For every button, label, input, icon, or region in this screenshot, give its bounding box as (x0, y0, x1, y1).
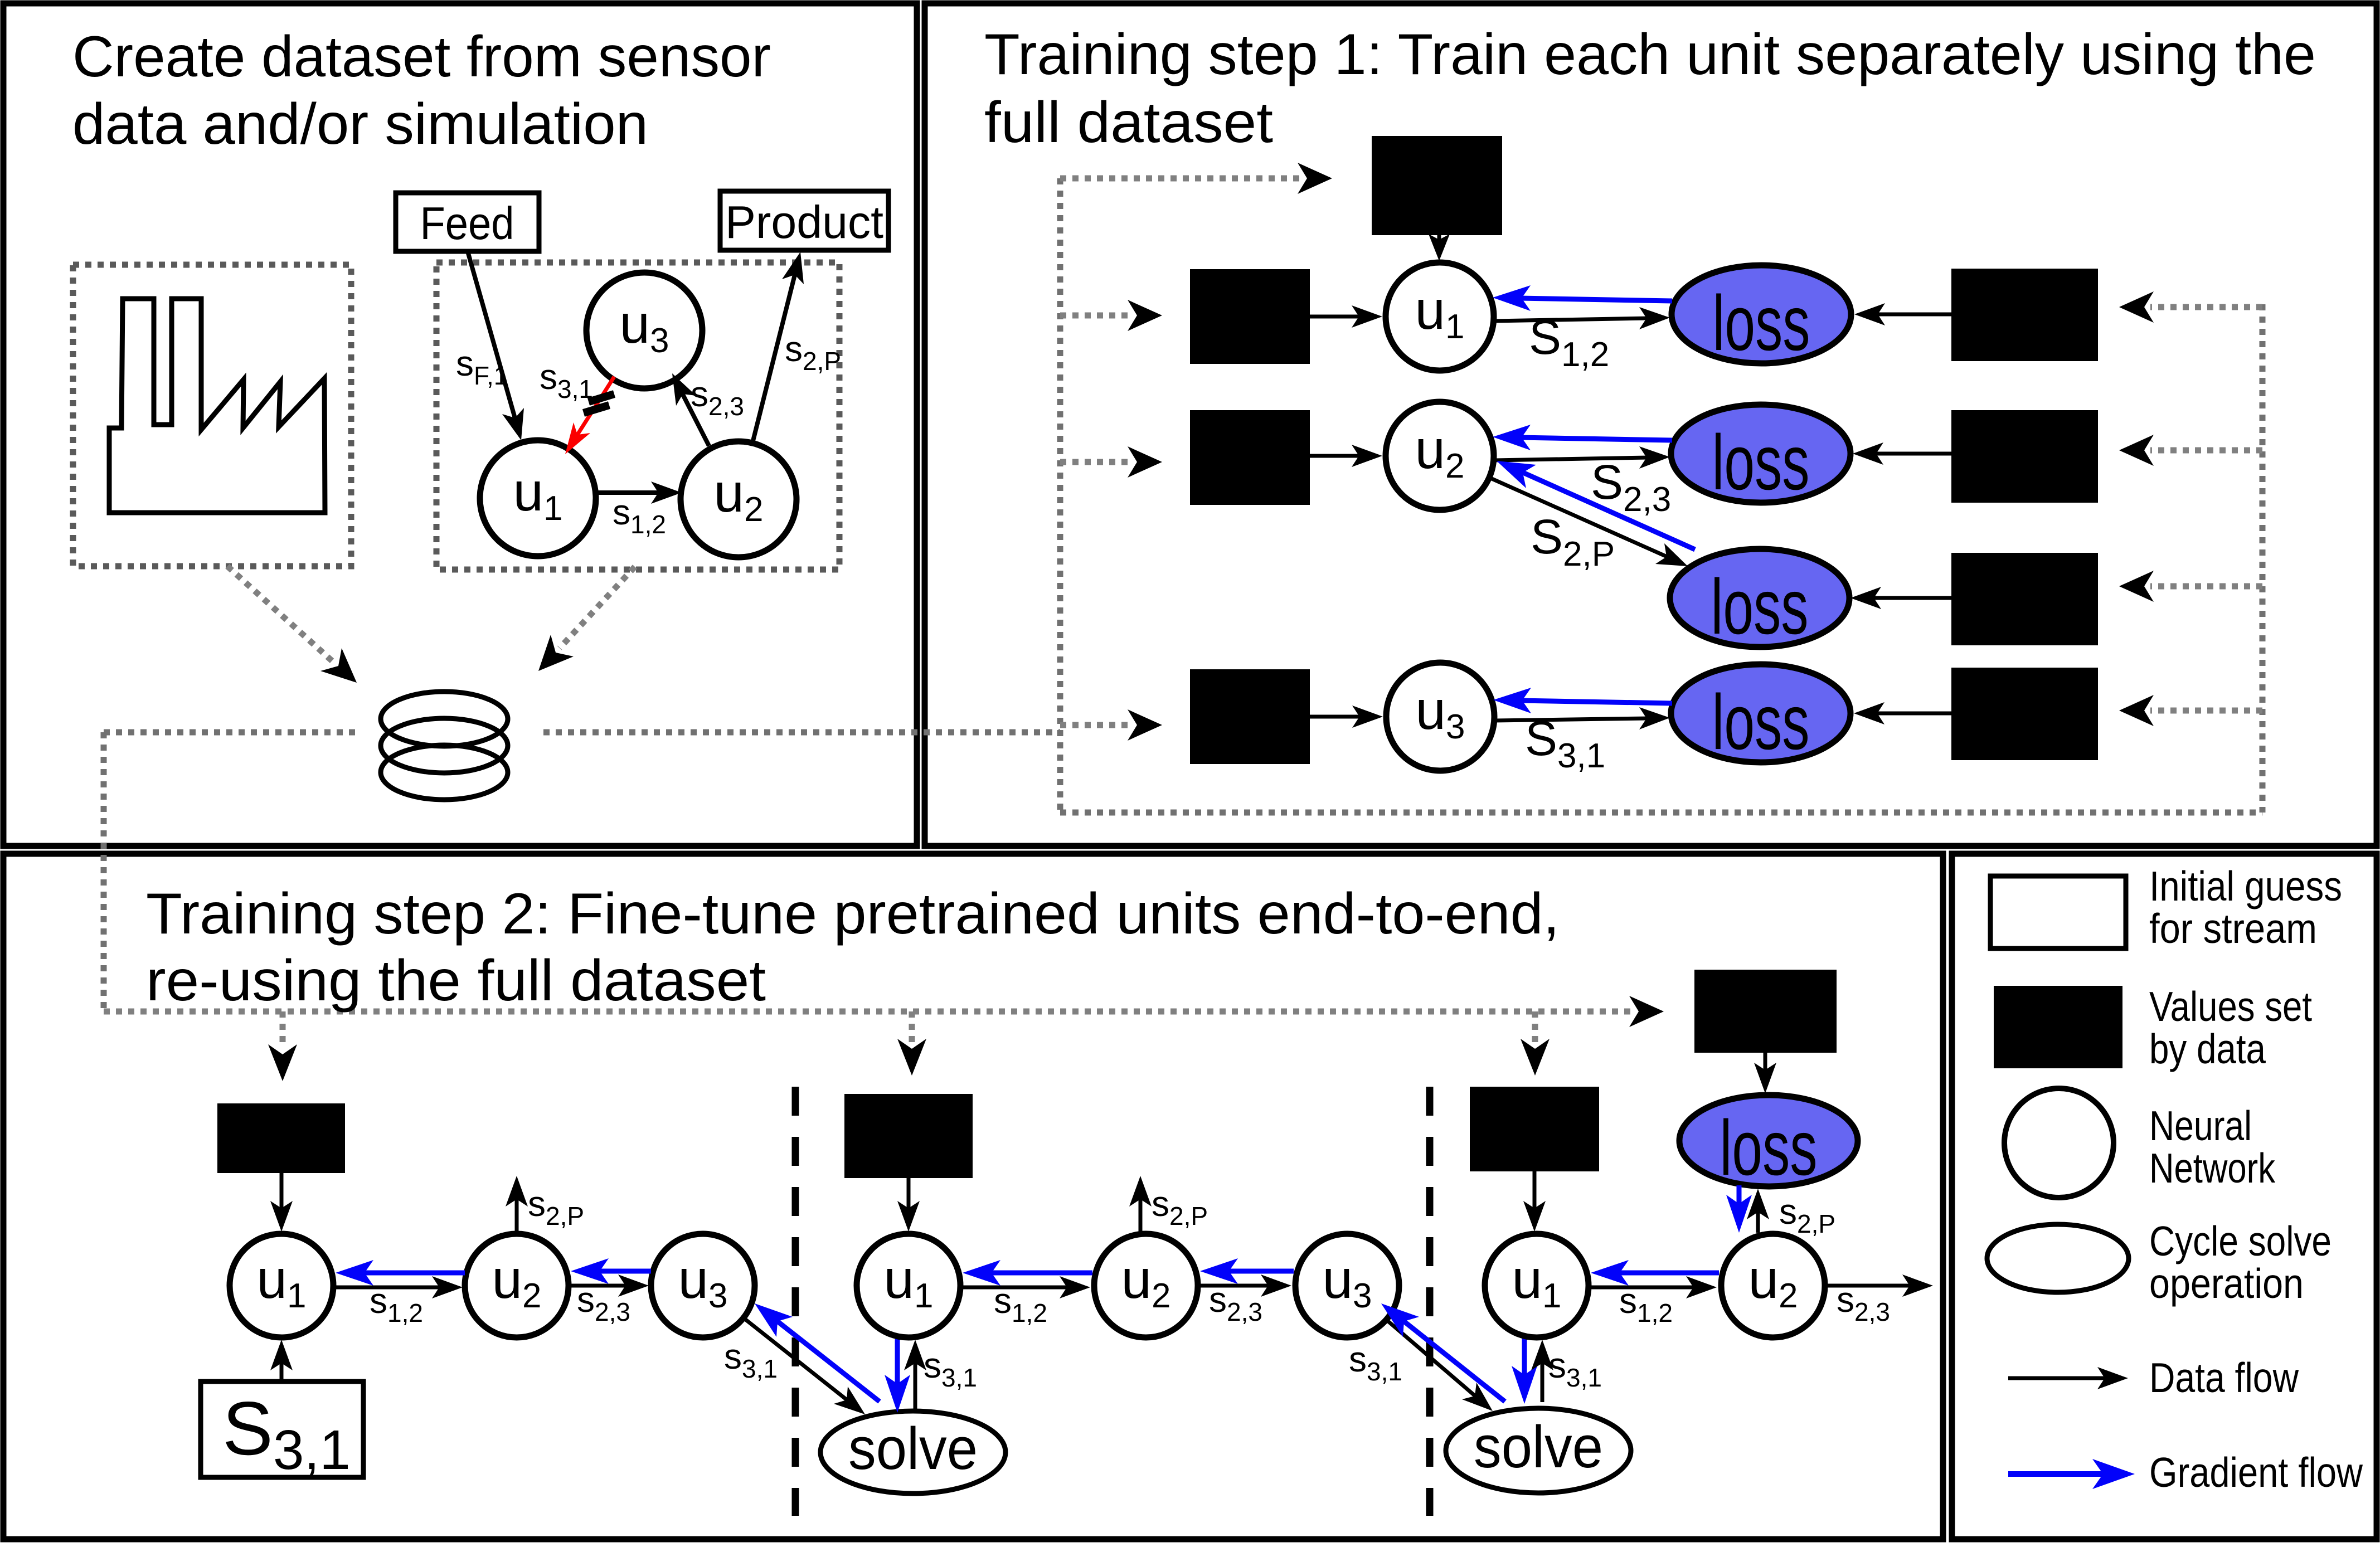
arrow u3 group1 to solve1 (744, 1318, 848, 1401)
arrow u3 group2 to solve2 (1386, 1320, 1476, 1397)
black box row2 right (1954, 412, 2096, 500)
svg-text:data and/or simulation: data and/or simulation (72, 92, 648, 157)
arrow feed to u1 (468, 251, 516, 420)
arrow box to loss group3 (1764, 1050, 1767, 1072)
divider dashed 2 (1426, 1087, 1434, 1516)
svg-text:full dataset: full dataset (984, 90, 1273, 155)
svg-text:loss: loss (1712, 678, 1810, 766)
svg-text:s2,P: s2,P (528, 1184, 584, 1230)
divider dashed 1 (792, 1087, 799, 1516)
panel border bottom-left (3, 854, 1943, 1539)
dashed line down left side (101, 732, 107, 1011)
arrow u2 to loss group3 (1756, 1210, 1760, 1233)
arrow solve2 to u1 group3 (1541, 1361, 1544, 1402)
svg-text:s2,P: s2,P (785, 329, 841, 376)
black box group2 (847, 1096, 970, 1176)
blue arrow u2 to u1 group3 (1617, 1271, 1719, 1276)
svg-text:Data flow: Data flow (2149, 1354, 2299, 1401)
arrow rbox to loss row2 (1874, 452, 1954, 456)
arrow box to u3 row4 (1308, 715, 1362, 719)
arrow box to u1 group3 (1533, 1169, 1537, 1210)
black box row1 left (1192, 271, 1308, 362)
svg-text:Product: Product (725, 196, 883, 248)
dashed branch to right box4 (2150, 708, 2262, 714)
black box row3 right (1954, 555, 2096, 643)
blue arrow u1 group2 to solve1 (895, 1339, 900, 1387)
unit u2 group2 (1094, 1234, 1198, 1337)
dashed branch to right box1 (2150, 304, 2262, 310)
loss ellipse row3 (1670, 549, 1849, 647)
S3,1 input box group1 (201, 1381, 363, 1477)
red arrow u3 to u1 (s3,1 broken) (576, 377, 614, 436)
unit u1 group1 (230, 1234, 333, 1337)
dashed line database left (104, 729, 360, 736)
unit u1 group3 (1485, 1234, 1589, 1337)
dashed branch to group2 box (909, 1011, 915, 1042)
arrow u1 to loss row1 (1494, 318, 1649, 321)
dashed branch to group3 box (1532, 1011, 1538, 1042)
unit u1 (flowsheet) (480, 440, 596, 556)
loss ellipse row2 (1671, 405, 1850, 503)
dotted arrow flowsheet to database (560, 567, 635, 648)
database cylinder ellipse bottom (381, 745, 508, 800)
svg-text:Initial guess: Initial guess (2149, 863, 2342, 909)
factory dotted box (73, 265, 351, 566)
svg-text:s2,3: s2,3 (691, 374, 744, 421)
dashed line bottom horizontal (104, 1009, 1633, 1015)
svg-text:Feed: Feed (420, 197, 514, 249)
arrow u2 to product (s2,P) (752, 273, 795, 443)
arrow u2 to u3 (s2,3) (682, 392, 709, 446)
arrow box to u2 row2 (1308, 454, 1361, 458)
arrow u1 to u2 group3 (1589, 1286, 1696, 1290)
arrow rbox to loss row3 (1872, 596, 1954, 600)
svg-text:operation: operation (2149, 1260, 2304, 1307)
blue arrow loss to u1 row1 (1519, 298, 1672, 301)
svg-text:loss: loss (1713, 279, 1810, 367)
dashed branch to group1 box (280, 1011, 286, 1048)
blue arrow u3 to u2 group2 (1226, 1269, 1294, 1274)
legend initial-guess rect (1990, 876, 2126, 948)
svg-text:Create dataset from sensor: Create dataset from sensor (72, 25, 771, 89)
unit u2 group3 (1721, 1234, 1825, 1337)
break mark 2 (584, 405, 609, 413)
legend gradient-flow arrow (2008, 1471, 2106, 1477)
svg-text:s3,1: s3,1 (724, 1336, 778, 1383)
svg-text:solve: solve (1474, 1413, 1603, 1480)
svg-text:s3,1: s3,1 (1349, 1339, 1402, 1386)
arrow S3,1 box to u1 group1 (280, 1361, 284, 1381)
blue arrow loss to u3 row4 (1519, 700, 1672, 703)
svg-text:by data: by data (2149, 1025, 2266, 1072)
legend values rect (1996, 988, 2120, 1066)
unit u3 (flowsheet) (586, 273, 702, 388)
svg-text:Neural: Neural (2149, 1102, 2252, 1149)
database cylinder ellipse top (381, 692, 508, 746)
svg-text:Training step 1: Train each un: Training step 1: Train each unit separat… (984, 22, 2316, 87)
dashed vertical training1 right (2260, 304, 2266, 813)
black box row2 left (1192, 412, 1308, 503)
svg-text:loss: loss (1711, 563, 1809, 650)
unit u1 (training1) (1386, 262, 1494, 371)
panel border top-right (925, 3, 2377, 846)
dotted arrow factory to database (227, 566, 333, 662)
loss ellipse group3 (1679, 1095, 1858, 1186)
legend data-flow arrow (2008, 1376, 2107, 1380)
svg-text:Network: Network (2149, 1145, 2275, 1191)
svg-text:s2,P: s2,P (1152, 1184, 1208, 1230)
blue arrow loss row3 to u2 diagonal (1521, 471, 1695, 549)
arrow u2 out s2,3 group3 (1825, 1284, 1912, 1288)
loss ellipse row4 (1671, 664, 1850, 762)
blue arrow loss to u2 group3 (1737, 1185, 1742, 1207)
unit u2 (training1) (1386, 402, 1494, 510)
svg-text:Gradient flow: Gradient flow (2149, 1449, 2363, 1496)
dashed branch to right box2 (2150, 447, 2262, 454)
black box group1 (220, 1106, 343, 1171)
flowsheet dotted box (436, 262, 839, 570)
svg-text:Training step 2: Fine-tune pre: Training step 2: Fine-tune pretrained un… (146, 882, 1560, 946)
arrow box to u1 group2 (907, 1176, 911, 1210)
svg-text:loss: loss (1712, 419, 1810, 506)
legend cycle ellipse (1987, 1224, 2129, 1292)
unit u2 group1 (465, 1234, 569, 1337)
unit u2 (flowsheet) (681, 441, 796, 557)
arrow u2 to u3 group1 (569, 1284, 628, 1288)
dashed line database to training1 (543, 729, 1060, 736)
arrow u2 to u3 group2 (1198, 1284, 1270, 1288)
blue arrow loss to u2 row2 (1519, 437, 1672, 440)
solve ellipse 1 (820, 1411, 1006, 1494)
solve ellipse 2 (1446, 1408, 1631, 1493)
arrow u2 to loss row2 (1494, 458, 1649, 460)
black box row4 left (1192, 672, 1308, 762)
factory icon (109, 299, 325, 513)
arrow u2 to loss row3 diagonal (1489, 478, 1668, 557)
blue arrow u2 to u1 group2 (989, 1271, 1092, 1276)
svg-text:solve: solve (848, 1415, 978, 1482)
svg-text:Cycle solve: Cycle solve (2149, 1218, 2332, 1264)
svg-text:loss: loss (1720, 1104, 1818, 1191)
arrow rbox to loss row4 (1875, 712, 1954, 716)
dashed vertical training1 left (1057, 178, 1063, 813)
svg-text:s3,1: s3,1 (540, 357, 593, 403)
arrow rbox to loss row1 (1876, 313, 1954, 317)
svg-text:for stream: for stream (2149, 905, 2317, 952)
blue arrow solve1 to u3 group1 (775, 1320, 880, 1402)
dashed branch to right box3 (2150, 583, 2262, 590)
arrow u1 to u2 (s1,2) (595, 490, 660, 495)
svg-text:S3,1: S3,1 (222, 1386, 351, 1481)
black box row4 right (1954, 670, 2096, 758)
blue arrow u1 group3 to solve2 (1522, 1339, 1527, 1378)
unit u3 (training1) (1386, 663, 1494, 771)
blue arrow u2 to u1 group1 (362, 1271, 465, 1276)
dashed branch to row2 box (1060, 459, 1131, 465)
unit u3 group2 (1295, 1234, 1399, 1337)
arrow u3 to loss row4 (1494, 718, 1649, 721)
blue arrow u3 to u2 group1 (597, 1269, 651, 1274)
black box row1 right (1954, 271, 2096, 359)
arrow s2,P up group2 (1139, 1197, 1143, 1233)
database cylinder ellipse middle (381, 718, 508, 773)
svg-text:sF,1: sF,1 (456, 343, 508, 390)
panel border legend (1952, 854, 2377, 1539)
svg-text:S2,P: S2,P (1531, 510, 1615, 573)
svg-text:s3,1: s3,1 (924, 1345, 977, 1392)
Product box (720, 191, 888, 250)
legend NN circle (2004, 1088, 2114, 1198)
arrow s2,P up group1 (515, 1197, 519, 1233)
blue arrow solve2 to u3 group2 (1402, 1320, 1505, 1402)
unit u3 group1 (651, 1234, 755, 1337)
black box loss input group3 (1697, 972, 1834, 1050)
loss ellipse row1 (1672, 265, 1851, 363)
svg-text:s3,1: s3,1 (1548, 1345, 1602, 1392)
dashed branch to row1 box (1060, 313, 1131, 319)
black box top (values) (1374, 138, 1500, 233)
dashed bottom training1 (1060, 810, 2262, 816)
dashed branch to row3 box (1060, 722, 1131, 728)
arrow box to u1 row1 (1308, 315, 1361, 319)
panel border top-left (3, 3, 917, 846)
dashed branch to top box (1060, 176, 1301, 182)
arrow box to u1 group1 (280, 1171, 284, 1210)
arrow top box to u1 (1437, 231, 1441, 242)
arrow u1 to u2 group2 (960, 1286, 1069, 1290)
svg-text:s2,P: s2,P (1779, 1191, 1835, 1238)
unit u1 group2 (857, 1234, 960, 1337)
Feed box (396, 193, 539, 251)
arrow solve1 to u1 group2 (914, 1361, 917, 1411)
arrow u1 to u2 group1 (333, 1286, 441, 1290)
svg-text:Values set: Values set (2149, 983, 2312, 1030)
break mark 1 (589, 394, 614, 402)
svg-text:re-using the full dataset: re-using the full dataset (146, 948, 766, 1013)
black box group3 (1472, 1089, 1597, 1169)
